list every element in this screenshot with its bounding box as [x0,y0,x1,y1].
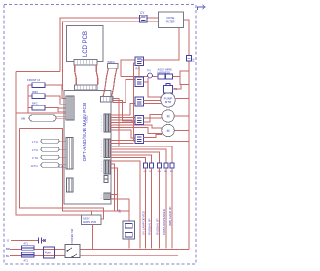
fan wires right strip A [110,104,162,139]
noise filter box [159,12,184,28]
wires from bar2 right going down [113,80,135,147]
svg-text:2 TH: 2 TH [32,148,38,152]
svg-text:M: M [167,115,170,119]
svg-text:(MB) K2GO 3P: (MB) K2GO 3P [168,206,172,226]
connector bar under LCD [74,60,97,66]
svg-text:OPT-AND/SUB MAIN PCB: OPT-AND/SUB MAIN PCB [82,103,87,162]
svg-text:FILTER: FILTER [166,21,175,24]
svg-text:AB: AB [21,117,25,121]
svg-text:CN202: CN202 [86,115,89,123]
fan wires right strip B [110,141,135,144]
svg-text:1: 1 [101,141,102,143]
svg-text:Fuse: Fuse [45,251,51,255]
motor circle 2 [162,110,174,122]
svg-text:6: 6 [101,131,102,133]
main pcb box [64,91,111,205]
connector bar on main pcb top [75,85,98,90]
connector strip CN1 left inside [66,96,74,120]
nested wires strip B to bottom connectors [110,146,172,163]
pills wires to strip [57,141,66,167]
circle wires right [174,99,189,131]
wires AB pill [56,116,66,119]
svg-text:4: 4 [101,171,102,173]
svg-text:SMPS PCB: SMPS PCB [83,221,96,224]
transducer box [164,84,173,94]
verticals below connectors to bus [146,168,173,249]
svg-text:3: 3 [101,147,102,149]
svg-text:BL: BL [6,254,10,258]
svg-text:LW: LW [118,209,122,213]
relay box 1 [135,57,144,66]
relay left bus [121,60,135,141]
svg-text:3: 3 [101,168,102,170]
flow arrow top right [198,5,206,10]
svg-text:MTR: MTR [165,100,172,104]
connector bar 2 upper [108,64,119,69]
pill th4 [41,163,59,168]
right edge connector strip A [104,114,110,132]
svg-text:2: 2 [101,165,102,167]
module box nfc [32,105,45,110]
door switch box [65,245,80,258]
relay box 4 [135,116,144,125]
pill sensor AB [29,115,56,121]
assy smps box [82,215,102,225]
module group wires [16,85,66,113]
left long wire outer [16,72,82,216]
svg-text:4: 4 [101,150,102,152]
relay3 wires [144,101,162,104]
ribbon cable LCD to main [75,65,98,85]
svg-text:3 14: 3 14 [59,166,64,169]
motor circle 3 [162,124,174,136]
svg-text:OV(D)(A) 2P: OV(D)(A) 2P [147,219,151,235]
svg-text:TH: TH [147,69,151,73]
svg-text:PWBA DISPENSER: PWBA DISPENSER [162,209,166,235]
svg-text:5: 5 [101,153,102,155]
connector strip CN2 pills [66,138,73,170]
capacitor CY inline [140,15,148,22]
relay2 wires [144,82,149,87]
svg-text:OV(D)(A) 2P: OV(D)(A) 2P [155,219,159,235]
svg-text:471: 471 [24,242,29,246]
svg-text:LCD PCB: LCD PCB [83,31,89,57]
svg-text:M: M [167,129,170,133]
svg-text:2: 2 [101,144,102,146]
connector bar 2 lower [101,97,114,103]
svg-text:14 TH: 14 TH [31,164,38,168]
svg-text:UV LAMP DEVICE: UV LAMP DEVICE [141,211,145,235]
pill th2 [41,147,59,151]
AC wires [10,250,189,256]
relay5 wires [144,135,190,142]
svg-text:1: 1 [101,116,102,118]
svg-text:1: 1 [101,195,102,197]
pump motor circle [161,93,175,107]
svg-text:C TH: C TH [32,156,38,160]
wires from noise filter [141,20,189,250]
svg-text:FS: FS [192,58,196,62]
pill th1 [41,139,59,143]
right edge connector strip C [104,160,110,174]
pills loop wire [20,129,130,211]
relay box 5 [135,135,144,144]
svg-text:6: 6 [101,156,102,158]
left wire inner to smps loop [20,129,104,219]
relay4 wires [144,115,163,123]
svg-text:BR: BR [6,247,10,251]
ribbon cable 2 [103,68,117,96]
LW bottom wire [128,239,130,249]
svg-text:471: 471 [24,259,29,263]
wires strip E to LW [110,195,129,222]
border dashed frame [4,5,196,265]
svg-text:TD: TD [174,88,177,91]
svg-text:1: 1 [101,162,102,164]
relay box 2 [135,77,144,87]
smps wires [92,211,93,250]
relay1 wires [139,60,179,77]
door lock LW box [123,221,135,239]
svg-text:1 TH: 1 TH [32,140,38,144]
connector 2p mid right edge [104,176,108,183]
svg-text:3: 3 [101,122,102,124]
svg-text:POWER SW: POWER SW [70,228,74,243]
svg-text:2: 2 [101,119,102,121]
relay box 3 [135,97,144,106]
right edge connector strip B [104,139,110,158]
module box display [32,83,45,88]
module box wifi [32,94,45,99]
svg-text:2: 2 [101,198,102,200]
svg-text:G: G [7,239,9,243]
svg-text:RY1: RY1 [136,68,141,71]
connector strip CN3 lower [67,178,74,192]
strip C lower wires [110,161,140,249]
right edge connector strip E small [104,193,110,200]
svg-text:FRONT UI: FRONT UI [27,78,40,82]
fuse FS right edge [187,56,192,62]
fuse box [44,247,55,258]
LCD PCB box [66,25,103,61]
vertical wire labels [141,206,172,235]
pill th3 [41,155,59,159]
pin numbers strips [101,116,102,200]
wire top horizontal pair to filter [60,18,159,91]
transducer right wire [173,85,190,90]
svg-text:4: 4 [101,125,102,127]
ground wire with capacitor [11,240,46,242]
inline connectors row [144,163,175,168]
